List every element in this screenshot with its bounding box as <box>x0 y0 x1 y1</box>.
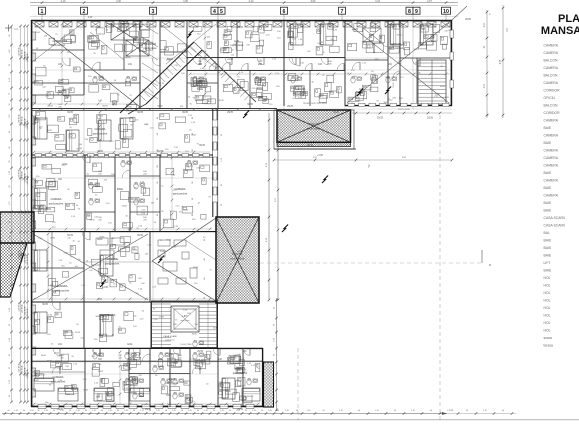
mid band bath fixtures <box>89 183 145 206</box>
svg-text:CAMERA: CAMERA <box>544 194 559 198</box>
svg-text:90: 90 <box>192 165 194 167</box>
svg-text:90: 90 <box>502 410 504 412</box>
wall y109 x31-277 <box>31 106 277 111</box>
svg-text:1,20: 1,20 <box>92 410 96 412</box>
svg-text:90: 90 <box>430 410 432 412</box>
svg-text:HOL: HOL <box>544 299 551 303</box>
svg-text:30/45: 30/45 <box>65 394 71 396</box>
svg-text:2,07: 2,07 <box>427 0 432 3</box>
svg-text:1: 1 <box>41 9 44 15</box>
svg-text:1,20: 1,20 <box>44 410 48 412</box>
svg-text:4,10: 4,10 <box>249 0 254 3</box>
corridor door arcs right wing <box>53 40 400 355</box>
svg-text:25/25: 25/25 <box>14 29 19 31</box>
svg-text:30/45: 30/45 <box>171 246 177 248</box>
svg-text:30/45: 30/45 <box>159 317 165 319</box>
svg-text:90: 90 <box>204 297 206 299</box>
dashed line horizontal y263 <box>260 262 482 264</box>
svg-text:210: 210 <box>233 358 236 360</box>
svg-text:+4,50: +4,50 <box>227 59 234 61</box>
svg-text:TERASA: TERASA <box>309 122 320 126</box>
dimension chain bottom <box>0 410 579 420</box>
svg-text:1,20: 1,20 <box>60 410 64 412</box>
svg-text:90: 90 <box>85 410 87 412</box>
svg-text:210: 210 <box>128 107 131 109</box>
svg-text:5: 5 <box>220 9 223 15</box>
dimension chain x269/278 <box>266 113 279 301</box>
svg-text:90: 90 <box>245 410 247 412</box>
svg-text:+4,50: +4,50 <box>237 251 244 253</box>
svg-text:1,50 90 45: 1,50 90 45 <box>22 366 24 375</box>
svg-text:+4,50: +4,50 <box>102 287 109 289</box>
svg-text:25/45: 25/45 <box>63 252 69 254</box>
svg-text:1,20: 1,20 <box>156 410 160 412</box>
svg-text:HOL: HOL <box>544 291 551 295</box>
door arcs <box>52 58 420 374</box>
svg-text:+4,50: +4,50 <box>317 155 324 157</box>
svg-text:90: 90 <box>213 410 215 412</box>
svg-text:1,20: 1,20 <box>14 410 18 412</box>
svg-text:pard.parchet: pard.parchet <box>55 289 70 293</box>
svg-text:1,20: 1,20 <box>483 410 487 412</box>
svg-text:BAIE: BAIE <box>117 187 123 191</box>
svg-text:BAIE: BAIE <box>544 239 552 243</box>
svg-text:210: 210 <box>398 64 401 66</box>
svg-text:30/45: 30/45 <box>131 376 137 378</box>
interior walls middle band <box>31 155 216 232</box>
svg-text:30/45: 30/45 <box>47 361 53 363</box>
svg-text:CAMERA: CAMERA <box>104 313 115 317</box>
svg-text:25/45: 25/45 <box>160 251 166 253</box>
svg-text:2,97: 2,97 <box>484 22 486 27</box>
bottom band bath fixtures <box>133 366 258 400</box>
svg-text:90: 90 <box>149 410 151 412</box>
svg-text:1,20: 1,20 <box>188 410 192 412</box>
svg-text:BAIE: BAIE <box>544 171 552 175</box>
dim row below right block <box>352 109 452 120</box>
svg-text:BAIE: BAIE <box>257 87 263 91</box>
svg-text:30/45: 30/45 <box>192 333 198 335</box>
svg-text:4,43: 4,43 <box>375 0 380 3</box>
svg-text:1,50 90 45: 1,50 90 45 <box>27 121 29 130</box>
svg-text:30/45: 30/45 <box>440 86 446 88</box>
svg-text:x: x <box>489 262 491 267</box>
svg-text:1,20: 1,20 <box>339 410 343 412</box>
svg-text:pard.parchet: pard.parchet <box>293 91 308 95</box>
svg-text:90: 90 <box>37 410 39 412</box>
svg-text:CAMERA: CAMERA <box>544 179 559 183</box>
dim line below terrace A and right wing <box>273 157 454 168</box>
svg-text:1,50 90 45: 1,50 90 45 <box>27 54 29 63</box>
svg-text:30/45: 30/45 <box>182 112 188 114</box>
svg-text:3,60: 3,60 <box>311 0 316 3</box>
svg-text:30/45: 30/45 <box>98 371 104 373</box>
svg-text:HOL: HOL <box>234 39 240 43</box>
svg-text:9: 9 <box>415 9 418 15</box>
svg-text:CASA SCARII: CASA SCARII <box>163 335 177 338</box>
svg-text:BALCON: BALCON <box>544 104 558 108</box>
svg-text:CASA SCARII: CASA SCARII <box>544 224 565 228</box>
interior walls bottom band <box>31 348 263 407</box>
svg-text:30/45: 30/45 <box>333 112 339 114</box>
svg-text:90: 90 <box>277 410 279 412</box>
svg-text:90: 90 <box>117 410 119 412</box>
staircase with lift <box>152 301 218 348</box>
terrace A outer rim <box>274 110 354 149</box>
interior walls lower-mid band <box>31 232 218 302</box>
svg-text:90: 90 <box>192 133 194 135</box>
diagonal corridor walls center <box>120 42 256 114</box>
svg-text:25/25: 25/25 <box>287 106 293 108</box>
svg-text:1,20: 1,20 <box>236 410 240 412</box>
svg-text:pard.gresie: pard.gresie <box>166 381 180 385</box>
svg-text:pard.parchet: pard.parchet <box>105 262 120 266</box>
svg-text:4,30: 4,30 <box>116 0 121 3</box>
svg-text:pard.gresie: pard.gresie <box>231 43 245 47</box>
roof diagonals upper-left <box>32 22 216 107</box>
svg-text:BALCON: BALCON <box>544 74 558 78</box>
interior walls upper band <box>31 20 452 109</box>
svg-text:CAMERA: CAMERA <box>52 375 63 379</box>
svg-text:pard.gresie: pard.gresie <box>144 46 158 50</box>
svg-text:3,97: 3,97 <box>484 83 486 88</box>
svg-text:1,50 90 45: 1,50 90 45 <box>19 115 21 124</box>
svg-text:HOL: HOL <box>544 329 551 333</box>
svg-text:1,50 90 45: 1,50 90 45 <box>27 309 29 318</box>
window zipper row wall y106 right block <box>348 103 449 106</box>
svg-text:1,20: 1,20 <box>268 410 272 412</box>
svg-text:90: 90 <box>466 410 468 412</box>
svg-text:90: 90 <box>192 182 194 184</box>
svg-text:90: 90 <box>204 239 206 241</box>
svg-text:1,20: 1,20 <box>108 410 112 412</box>
svg-text:HOL: HOL <box>127 342 133 346</box>
svg-text:210: 210 <box>98 174 101 176</box>
wall x263 right edge bottom band <box>262 348 264 407</box>
svg-text:BAIE: BAIE <box>544 186 552 190</box>
svg-text:25/45: 25/45 <box>397 35 403 37</box>
svg-text:HOL: HOL <box>544 276 551 280</box>
svg-text:90: 90 <box>261 410 263 412</box>
svg-text:90: 90 <box>157 133 159 135</box>
svg-text:BAIE: BAIE <box>544 246 552 250</box>
staircase upper right <box>418 60 446 104</box>
svg-text:terasa: terasa <box>544 344 554 348</box>
svg-text:90: 90 <box>157 149 159 151</box>
svg-text:1,50 90 45: 1,50 90 45 <box>22 117 24 126</box>
svg-text:30/45: 30/45 <box>219 100 225 102</box>
stair band walls <box>31 302 218 348</box>
svg-text:25/45: 25/45 <box>420 29 426 31</box>
svg-text:pard.gresie: pard.gresie <box>181 320 190 322</box>
room furniture second pass <box>34 27 376 402</box>
svg-text:90: 90 <box>192 149 194 151</box>
svg-text:4,85: 4,85 <box>500 59 502 64</box>
windows bottom wall <box>38 404 254 408</box>
grid axis bubbles <box>39 7 451 20</box>
svg-text:1,20: 1,20 <box>285 410 289 412</box>
svg-text:90: 90 <box>165 410 167 412</box>
svg-text:25/25: 25/25 <box>227 112 233 114</box>
small dim texts <box>42 17 471 411</box>
svg-text:90: 90 <box>192 214 194 216</box>
svg-text:90: 90 <box>192 117 194 119</box>
svg-text:25/25 25/25: 25/25 25/25 <box>398 109 410 111</box>
svg-text:4: 4 <box>213 9 216 15</box>
svg-text:30/45: 30/45 <box>34 380 40 382</box>
svg-text:30/45: 30/45 <box>413 49 419 51</box>
svg-text:1,50 90 45: 1,50 90 45 <box>27 176 29 185</box>
terrace A diagonals <box>274 110 356 149</box>
svg-text:30/45: 30/45 <box>90 220 96 222</box>
svg-text:2: 2 <box>83 9 86 15</box>
svg-text:HOL: HOL <box>544 306 551 310</box>
svg-text:90: 90 <box>133 410 135 412</box>
room furniture <box>34 23 448 404</box>
svg-text:90: 90 <box>157 198 159 200</box>
svg-text:1,20: 1,20 <box>76 410 80 412</box>
svg-text:1,50 90 45: 1,50 90 45 <box>22 50 24 59</box>
svg-text:210: 210 <box>143 220 146 222</box>
roof diagonals lower-left X <box>33 234 148 300</box>
svg-text:30/45: 30/45 <box>137 235 143 237</box>
svg-text:30/45: 30/45 <box>47 106 53 108</box>
svg-text:BALCON: BALCON <box>544 59 558 63</box>
roof triangle at terrace C <box>84 218 216 301</box>
svg-text:3: 3 <box>152 9 155 15</box>
svg-text:90: 90 <box>157 214 159 216</box>
svg-text:90: 90 <box>157 182 159 184</box>
svg-text:1,50 90 45: 1,50 90 45 <box>27 370 29 379</box>
svg-text:CAMERA: CAMERA <box>294 87 305 91</box>
svg-text:30/45: 30/45 <box>307 145 313 147</box>
svg-text:210: 210 <box>58 107 61 109</box>
svg-text:1,50 90 45: 1,50 90 45 <box>22 172 24 181</box>
svg-text:4,10: 4,10 <box>61 0 66 3</box>
interior projection chains <box>33 23 450 406</box>
left edge rotated dim text stacks <box>19 48 30 379</box>
svg-text:50/30: 50/30 <box>393 82 395 88</box>
svg-text:90: 90 <box>322 410 324 412</box>
wall bottom of upper-right block <box>345 105 452 107</box>
svg-text:scara: scara <box>544 336 552 340</box>
svg-text:90: 90 <box>394 410 396 412</box>
svg-text:HOL: HOL <box>544 321 551 325</box>
svg-text:25/45: 25/45 <box>75 332 81 334</box>
svg-text:90: 90 <box>192 198 194 200</box>
profile text row above terrace A <box>303 103 328 105</box>
svg-text:CAMERA: CAMERA <box>544 164 559 168</box>
svg-text:4,30: 4,30 <box>88 17 93 19</box>
svg-text:20/25: 20/25 <box>237 27 243 29</box>
scattered tiny annotation texts <box>33 25 453 405</box>
svg-text:90: 90 <box>229 410 231 412</box>
svg-text:HOL: HOL <box>125 55 131 59</box>
diagonal corridor ladder hatch <box>140 46 250 101</box>
svg-text:CAMERA: CAMERA <box>390 42 401 46</box>
svg-text:25/25: 25/25 <box>427 117 434 120</box>
svg-text:30/45: 30/45 <box>166 395 172 397</box>
svg-text:1,50 90 45: 1,50 90 45 <box>19 48 21 57</box>
svg-text:17x16,7/28,0: 17x16,7/28,0 <box>180 344 192 346</box>
svg-text:1,50 90 45: 1,50 90 45 <box>19 303 21 312</box>
svg-text:90: 90 <box>7 410 9 412</box>
svg-text:CASA SCARII: CASA SCARII <box>544 216 565 220</box>
exterior wall bottom <box>31 405 263 407</box>
svg-text:HOL: HOL <box>544 314 551 318</box>
svg-text:90: 90 <box>296 410 298 412</box>
svg-text:pard.parchet: pard.parchet <box>49 202 64 206</box>
svg-text:90: 90 <box>204 278 206 280</box>
svg-text:CAMERA: CAMERA <box>544 51 559 55</box>
svg-text:BAIE: BAIE <box>544 254 552 258</box>
dimension chain x276 lower <box>274 298 278 411</box>
skylight X boxes corridor <box>111 24 381 99</box>
svg-text:PLAN: PLAN <box>558 13 579 25</box>
svg-text:pard.parchet: pard.parchet <box>233 371 248 375</box>
svg-text:1,50 90 45: 1,50 90 45 <box>27 257 29 266</box>
window zipper row wall y155 <box>35 154 210 157</box>
exterior wall right of upper-right block <box>450 20 452 106</box>
svg-text:pard.parchet: pard.parchet <box>389 46 404 50</box>
svg-text:CAMERA: CAMERA <box>544 66 559 70</box>
svg-text:1,20: 1,20 <box>172 410 176 412</box>
svg-text:30/45: 30/45 <box>67 112 73 114</box>
svg-text:1,20: 1,20 <box>140 410 144 412</box>
bathroom fixtures <box>93 77 397 386</box>
svg-text:25/45: 25/45 <box>83 390 89 392</box>
svg-text:30/45: 30/45 <box>199 145 205 147</box>
exterior wall left <box>31 20 33 407</box>
svg-text:210: 210 <box>178 358 181 360</box>
svg-text:30/45: 30/45 <box>247 104 253 106</box>
svg-text:1,20: 1,20 <box>307 410 311 412</box>
svg-text:30/45: 30/45 <box>102 106 108 108</box>
svg-text:Y2: Y2 <box>367 164 371 168</box>
svg-text:LIFT: LIFT <box>544 261 551 265</box>
svg-text:CAMERA: CAMERA <box>544 134 559 138</box>
svg-text:OFICIU: OFICIU <box>544 96 556 100</box>
svg-text:+4,50: +4,50 <box>427 41 434 43</box>
svg-text:90: 90 <box>197 410 199 412</box>
svg-text:BAIE: BAIE <box>544 201 552 205</box>
svg-text:CORIDOR: CORIDOR <box>144 42 156 46</box>
svg-text:BAL: BAL <box>544 231 551 235</box>
svg-text:90: 90 <box>53 410 55 412</box>
svg-text:necirculabila: necirculabila <box>307 127 322 131</box>
dashed line vertical x298 <box>297 348 299 420</box>
svg-text:8: 8 <box>408 9 411 15</box>
svg-text:10: 10 <box>443 9 449 15</box>
svg-text:30/45: 30/45 <box>385 77 391 79</box>
svg-text:25/45: 25/45 <box>197 351 203 353</box>
svg-text:pard.parchet: pard.parchet <box>51 43 66 47</box>
svg-text:30/45: 30/45 <box>50 238 56 240</box>
svg-text:20/25: 20/25 <box>465 19 471 21</box>
svg-text:1,20: 1,20 <box>204 410 208 412</box>
svg-text:1,20: 1,20 <box>411 410 415 412</box>
legend title PLAN MANSARDA <box>541 13 579 37</box>
svg-text:1,20: 1,20 <box>220 410 224 412</box>
wall x218 stair band right edge <box>216 303 218 348</box>
svg-text:30/45: 30/45 <box>41 355 47 357</box>
svg-text:CAMERA: CAMERA <box>544 156 559 160</box>
svg-text:1,50 90 45: 1,50 90 45 <box>22 305 24 314</box>
svg-text:pard.parchet: pard.parchet <box>173 192 188 196</box>
dim texts right of wall x218 <box>221 133 223 206</box>
thin projection grid lines <box>31 20 452 374</box>
svg-text:25/25: 25/25 <box>377 117 384 120</box>
dimension chain left <box>9 25 29 404</box>
svg-text:25/45: 25/45 <box>40 375 46 377</box>
svg-text:BAIE: BAIE <box>544 126 552 130</box>
svg-text:90: 90 <box>23 410 25 412</box>
svg-text:CAMERA: CAMERA <box>544 81 559 85</box>
svg-text:210: 210 <box>60 358 63 360</box>
svg-text:CAMERA: CAMERA <box>544 149 559 153</box>
svg-text:25/45: 25/45 <box>98 76 104 78</box>
windows top wall <box>35 22 450 27</box>
svg-text:CAMERA: CAMERA <box>50 197 61 201</box>
rotated dim text columns interior <box>157 117 206 299</box>
svg-text:CORIDOR: CORIDOR <box>544 111 561 115</box>
door dim text pairs <box>58 61 401 360</box>
svg-text:1,50 90 45: 1,50 90 45 <box>19 364 21 373</box>
svg-text:25/45: 25/45 <box>166 239 172 241</box>
svg-text:25/45: 25/45 <box>213 328 219 330</box>
svg-text:PROFIL 25/25 25/25 25/25: PROFIL 25/25 25/25 25/25 <box>303 103 328 105</box>
svg-text:90: 90 <box>157 117 159 119</box>
svg-text:25/45: 25/45 <box>122 206 128 208</box>
svg-text:CAMERA: CAMERA <box>56 284 67 288</box>
svg-text:90: 90 <box>181 410 183 412</box>
slope arrows <box>100 31 391 288</box>
wall x215 right edge mid band <box>212 109 217 217</box>
svg-text:90: 90 <box>69 410 71 412</box>
svg-text:BAIE: BAIE <box>544 209 552 213</box>
svg-text:1,20: 1,20 <box>252 410 256 412</box>
svg-text:BAIE: BAIE <box>544 141 552 145</box>
svg-text:30/45: 30/45 <box>47 130 53 132</box>
svg-text:30/45: 30/45 <box>137 112 143 114</box>
svg-text:CORIDOR: CORIDOR <box>544 89 561 93</box>
svg-text:90: 90 <box>358 410 360 412</box>
svg-text:MANSARDA: MANSARDA <box>541 25 579 37</box>
legend room list <box>544 44 565 348</box>
svg-text:1,20: 1,20 <box>124 410 128 412</box>
dimension chain top <box>30 0 458 16</box>
dashed line vertical x440 <box>439 115 441 420</box>
plus marker top-left <box>5 25 18 32</box>
svg-text:6: 6 <box>283 9 286 15</box>
wall y348 x218-263 <box>217 347 263 349</box>
svg-text:1,50 90 45: 1,50 90 45 <box>22 253 24 262</box>
corner bracket and X label <box>482 250 491 267</box>
sofa cluster living area <box>96 238 197 284</box>
svg-text:necirculabila: necirculabila <box>230 257 245 261</box>
svg-text:30/45: 30/45 <box>42 304 48 306</box>
svg-text:1,50 90 45: 1,50 90 45 <box>19 251 21 260</box>
room labels <box>49 39 404 385</box>
svg-text:25/45: 25/45 <box>35 32 41 34</box>
svg-text:25/45: 25/45 <box>435 94 441 96</box>
svg-text:BAIE: BAIE <box>169 377 175 381</box>
svg-text:30/45: 30/45 <box>383 102 389 104</box>
dimension chain right upper <box>484 5 509 118</box>
svg-text:30/45: 30/45 <box>95 316 101 318</box>
beds <box>34 24 433 401</box>
svg-text:CAMERA: CAMERA <box>544 119 559 123</box>
